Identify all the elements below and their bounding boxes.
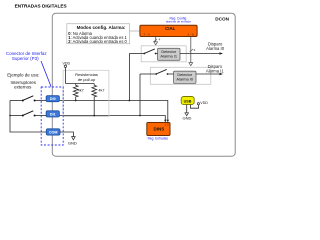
svg-text:4: 4 [194,48,196,52]
svg-text:CIAL: CIAL [165,26,175,31]
svg-text:DI0: DI0 [50,97,56,101]
svg-text:Alarma I1: Alarma I1 [160,54,177,59]
svg-text:4: 4 [159,38,161,42]
svg-text:4k7: 4k7 [78,89,84,93]
svg-text:DINS: DINS [154,127,165,132]
svg-text:Modos config. Alarma:: Modos config. Alarma: [77,25,126,30]
svg-text:Alarma I0: Alarma I0 [176,77,193,82]
svg-text:ENTRADAS DIGITALES: ENTRADAS DIGITALES [15,4,67,9]
svg-text:GND: GND [183,115,192,120]
svg-text:Alarma I0: Alarma I0 [206,46,225,51]
svg-text:COM: COM [49,130,58,134]
svg-text:Alarma I1: Alarma I1 [206,68,225,73]
svg-text:USB: USB [184,100,192,104]
svg-text:4k7: 4k7 [98,89,104,93]
svg-text:DCON: DCON [215,17,229,22]
svg-text:Reg. Entradas: Reg. Entradas [148,137,169,141]
svg-text:Ejemplo de uso:: Ejemplo de uso: [7,73,39,78]
svg-text:3 - 0: 3 - 0 [187,32,193,36]
svg-text:GND: GND [68,141,77,146]
svg-text:DI1: DI1 [50,112,56,116]
svg-text:alarmas de entrada: alarmas de entrada [166,20,191,24]
svg-text:externos: externos [14,85,32,90]
svg-text:7 - 4: 7 - 4 [143,32,149,36]
svg-text:2: Activada cuando entrada es: 2: Activada cuando entrada es 0 [68,39,127,44]
svg-text:Superior (P3): Superior (P3) [12,56,39,61]
svg-text:de pull-up: de pull-up [78,77,96,82]
svg-text:VDD: VDD [63,61,71,65]
svg-text:VDD: VDD [200,101,208,105]
